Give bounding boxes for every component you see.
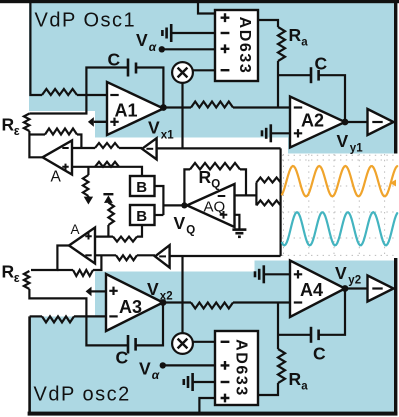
resistor fork lower to box edge — [256, 200, 280, 205]
ground at A2 plus input — [272, 132, 291, 134]
wire osc2 left edge — [28, 316, 31, 413]
wire resistor to A1 minus input — [77, 94, 107, 96]
arrow down tap (upper) — [84, 197, 93, 205]
svg-text:A1: A1 — [115, 101, 138, 121]
minus inside buffer A4 — [372, 287, 382, 289]
multiplier chip AD633 U2 box — [215, 331, 258, 405]
svg-text:VdP Osc1: VdP Osc1 — [35, 10, 137, 32]
svg-text:y1: y1 — [350, 143, 363, 155]
wire C2 right plate to A2 output — [319, 75, 345, 122]
svg-text:A3: A3 — [119, 297, 142, 317]
wire feedback resistor to minus input of A — [77, 135, 81, 149]
capacitor C4 plates — [310, 327, 313, 343]
block B1 box — [130, 176, 155, 196]
wire branch to variable tap (upper) — [87, 167, 89, 175]
wire capacitor C1 right plate to A1 output — [136, 68, 163, 108]
wire multiplier X1 down to buffer line — [181, 83, 183, 148]
svg-text:AQ: AQ — [204, 199, 226, 216]
resistor feedback (upper A) — [45, 129, 77, 135]
resistor Repsilon (upper) — [24, 114, 30, 132]
wire Ra bottom junction — [277, 61, 279, 108]
op-amp A (upper, points left) — [43, 141, 73, 175]
wire feedback A lower — [57, 269, 73, 271]
resistor fork upper to box edge — [256, 178, 280, 183]
plus symbol A upper — [62, 164, 68, 170]
svg-text:V: V — [337, 131, 349, 151]
resistor A- to buffer (lower) — [116, 255, 137, 260]
resistor vertical tap (upper) — [83, 175, 89, 196]
svg-text:R: R — [2, 262, 15, 282]
resistor A- to buffer (upper) — [95, 143, 119, 148]
wire V_alpha to AD633-1 pin3 — [162, 48, 215, 50]
node Vx1 (A1 output dot) — [160, 104, 167, 111]
node Vy2 (A4 output dot) — [342, 285, 349, 292]
block B2 box — [130, 205, 155, 225]
wire V_alpha to AD633-2 pin2 — [163, 364, 215, 366]
svg-text:Q: Q — [186, 225, 195, 237]
wire buffer A4 to frame — [394, 287, 396, 289]
inverting buffer after A2 — [368, 109, 394, 135]
multiplier X1 (top) — [172, 62, 193, 83]
node V_alpha (bottom) dot — [160, 362, 166, 368]
op-amp A2 — [290, 97, 345, 148]
wire osc1 left edge to A1 inverting input (node) — [30, 2, 42, 95]
multiplier X2 (bottom) — [172, 333, 193, 354]
wire Vx2 bus to A4 — [163, 301, 191, 303]
capacitor C3 plates — [127, 335, 130, 354]
op-amp A1 — [107, 82, 164, 135]
inverting buffer (lower, points left) — [155, 245, 170, 267]
node Vx2 (A3 output dot) — [160, 299, 167, 306]
plus symbol A1 — [110, 118, 118, 126]
node Vy1 (A2 output dot) — [342, 119, 349, 126]
svg-text:VdP osc2: VdP osc2 — [34, 384, 131, 406]
op-amp AQ (points left) — [187, 184, 235, 227]
svg-text:V: V — [136, 30, 148, 50]
svg-text:V: V — [335, 263, 347, 283]
multiplier chip AD633 U1 box — [215, 10, 258, 81]
wire A4 output to buffer — [345, 287, 368, 289]
ground at A4 plus input — [265, 273, 291, 275]
resistor Ra (upper) — [278, 27, 285, 61]
resistor on A+ wire (upper) — [95, 162, 119, 167]
wire Ra junction to capacitor C2 — [278, 74, 311, 76]
wire tap bottom (lower) — [107, 225, 109, 237]
oscilloscope trace Vy2 (cyan) — [282, 212, 397, 245]
wire resistor to lower buffer tip — [137, 254, 155, 256]
svg-text:ε: ε — [14, 124, 20, 138]
svg-text:AD633: AD633 — [233, 339, 250, 397]
svg-text:A4: A4 — [300, 280, 323, 300]
svg-text:B: B — [136, 179, 147, 196]
arrow left at A1 plus — [88, 117, 94, 127]
wire Ra top junction — [277, 303, 279, 350]
wire Repsilon bottom junction — [29, 131, 42, 157]
node V_alpha (top) dot — [159, 46, 165, 52]
oscilloscope grid — [283, 154, 285, 258]
svg-text:B: B — [136, 208, 147, 225]
wire B2 bottom to A lower plus — [137, 225, 142, 237]
wire B1 right to junction — [155, 186, 164, 215]
capacitor C2 plates — [310, 67, 313, 83]
minus symbol A lower — [85, 254, 91, 256]
op-amp A4 — [290, 261, 345, 318]
plus symbol A lower — [85, 233, 91, 239]
VdP osc2 shaded region — [29, 261, 394, 414]
svg-text:V: V — [147, 279, 159, 299]
arrow up tap (lower) — [104, 195, 113, 203]
resistor Vx2 to A4 minus — [191, 303, 233, 309]
AD633 U2 pin symbols — [221, 341, 230, 343]
svg-text:A: A — [71, 222, 80, 237]
ground at AQ plus — [232, 228, 246, 231]
wire AD633-2 output to Ra lower — [258, 383, 278, 395]
capacitor C1 plates — [127, 59, 130, 77]
wire B2 right to junction — [155, 214, 164, 216]
wire A minus input run — [72, 147, 95, 149]
svg-text:x2: x2 — [160, 291, 173, 303]
plus symbol A4 — [294, 270, 302, 278]
wire capacitor C1 left plate to Repsilon top — [29, 68, 128, 114]
wire AD633-2 pin4 to bottom frame — [199, 398, 215, 413]
resistor feedback (lower A) — [73, 270, 93, 276]
wire A lower output — [31, 246, 69, 271]
oscilloscope trace Vy1 (orange) — [282, 166, 397, 196]
svg-text:C: C — [116, 348, 129, 368]
wire multiplier X1 to AD633-1 pin4 — [193, 69, 215, 71]
inverting buffer (upper, points left) — [142, 138, 157, 159]
svg-text:x1: x1 — [161, 130, 174, 142]
svg-text:ε: ε — [14, 271, 20, 285]
minus symbol A upper — [62, 147, 68, 149]
svg-text:a: a — [301, 37, 308, 49]
wire lower buffer input line / central box bottom edge — [170, 255, 281, 257]
arrow left at A3 plus — [86, 287, 92, 297]
plus symbol A3 — [109, 287, 117, 295]
wire AQ plus to ground — [235, 215, 240, 230]
central box right edge — [280, 148, 282, 256]
plus symbol A2 — [294, 129, 302, 137]
top border frame — [0, 0, 399, 3]
svg-text:A2: A2 — [301, 111, 324, 131]
wire fork vertical — [255, 183, 257, 206]
ground at AD633-1 pin2 — [172, 32, 215, 34]
svg-text:α: α — [149, 40, 157, 54]
wire A1 plus input with arrow — [94, 121, 107, 123]
op-amp A (lower, points left) — [69, 228, 95, 264]
minus symbol A2 — [294, 106, 302, 108]
resistor Ra (lower) — [278, 349, 285, 383]
wire Repsilon bottom to capacitor C3 — [29, 289, 128, 345]
svg-text:R: R — [2, 115, 15, 135]
wire AQ minus input run — [235, 194, 257, 196]
minus inside lower buffer — [159, 255, 166, 257]
svg-text:Q: Q — [211, 179, 220, 191]
resistor on A+ wire (lower) — [113, 237, 137, 242]
inverting buffer after A4 — [368, 276, 394, 302]
resistor Vx1 to A2 minus — [191, 102, 233, 108]
wire multiplier X2 to AD633-2 pin1 — [193, 341, 215, 343]
wire junction to node VQ — [163, 204, 182, 206]
wire AD633-1 output to Ra — [258, 20, 278, 27]
svg-text:R: R — [289, 25, 302, 45]
wire resistor to buffer tip — [119, 147, 142, 149]
plus symbol AQ — [220, 211, 228, 219]
VdP Osc1 shaded region — [29, 2, 394, 154]
op-amp A3 — [106, 274, 163, 331]
resistor RQ — [190, 163, 240, 170]
wire buffer input line / central box top edge — [157, 147, 281, 149]
svg-text:a: a — [301, 381, 308, 393]
svg-text:C: C — [313, 344, 326, 364]
svg-text:V: V — [148, 118, 160, 138]
svg-text:y2: y2 — [348, 275, 361, 287]
wire AD633-1 pin1 to top frame — [198, 2, 215, 14]
wire Vx1 bus to A2 — [163, 106, 191, 108]
wire C4 right plate to A4 output — [319, 289, 345, 335]
resistor R (A3 input) — [42, 316, 74, 322]
minus symbol A1 — [110, 94, 118, 96]
wire osc2 box top edge to A3 minus — [30, 315, 42, 317]
orange trace end marker — [390, 180, 396, 187]
svg-text:α: α — [152, 368, 160, 382]
ground at AD633-2 pin3 — [194, 381, 215, 383]
AD633 U1 pin symbols — [221, 13, 230, 22]
resistor R (A1 input) — [42, 89, 77, 95]
resistor vertical tap (lower) — [108, 203, 114, 226]
svg-text:V: V — [139, 359, 151, 379]
right border frame (upper) — [394, 0, 397, 154]
svg-text:C: C — [315, 54, 328, 74]
node VQ dot — [181, 202, 187, 208]
minus inside buffer A2 — [372, 121, 382, 123]
wire A3 plus input with arrow — [92, 290, 107, 292]
minus symbol A3 — [109, 315, 117, 317]
minus symbol A4 — [294, 301, 302, 303]
wire A upper plus input to B1 — [72, 167, 142, 176]
wire RQ loop — [184, 169, 190, 205]
svg-text:R: R — [199, 167, 212, 187]
wire A2 output to buffer — [345, 121, 368, 123]
wire A lower minus run — [95, 254, 116, 256]
wire Ra junction to capacitor C4 — [278, 334, 311, 336]
wire multiplier X2 up to buffer line — [181, 256, 183, 333]
right border frame (lower) — [394, 258, 397, 416]
svg-text:A: A — [51, 169, 62, 186]
minus symbol AQ — [218, 195, 226, 197]
svg-text:R: R — [289, 369, 302, 389]
svg-text:C: C — [108, 50, 121, 70]
svg-text:V: V — [174, 213, 186, 233]
resistor Repsilon (lower) — [24, 271, 30, 289]
svg-text:AD633: AD633 — [236, 17, 253, 75]
wire feedback to op-amp A upper — [29, 133, 45, 135]
wire buffer to frame — [394, 121, 396, 123]
wire capacitor C3 right plate to A3 output — [136, 303, 163, 346]
bottom border frame — [28, 412, 398, 416]
minus inside upper buffer — [146, 148, 153, 150]
